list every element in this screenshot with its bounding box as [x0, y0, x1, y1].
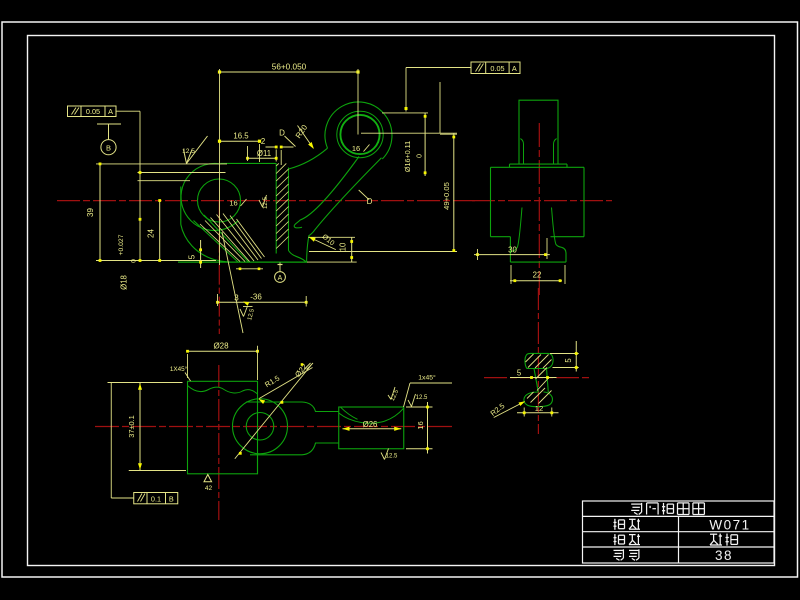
extension line y262.1 foot bottom	[307, 261, 357, 263]
radius R10 leader and text	[309, 237, 336, 250]
extension line y180.7	[138, 180, 191, 182]
dimension 5 web line	[510, 377, 557, 379]
front view: left boss bore circle Ø18	[198, 179, 241, 222]
svg-text:0.05: 0.05	[86, 107, 100, 116]
bottom view: rect corner to circle connector	[257, 456, 259, 474]
svg-text:0: 0	[131, 259, 138, 263]
svg-text:12.5: 12.5	[262, 196, 269, 209]
bottom view: small end saddle curve	[339, 408, 404, 423]
centerline front view vertical	[218, 201, 220, 334]
front view: right boss bore circle Ø16 bold	[340, 115, 379, 154]
roughness near small end top rotated	[388, 395, 391, 400]
dimension 22 extension lines	[510, 265, 512, 284]
side view: body bottom left segment	[491, 236, 511, 238]
leader to bottom frame	[110, 383, 112, 499]
extension line for 16.5	[259, 144, 261, 162]
chamfer leader right	[404, 383, 411, 407]
detail section: top lobe outline	[525, 353, 553, 368]
dimension 5 right line	[575, 341, 577, 372]
roughness mark near lug	[301, 363, 304, 366]
svg-text:Ø26: Ø26	[363, 420, 378, 429]
side view: stem inner guide lines	[520, 139, 523, 165]
svg-text:39: 39	[86, 208, 95, 217]
svg-text:0: 0	[415, 154, 424, 158]
datum flag 42 below rect	[204, 475, 212, 482]
svg-text:16.5: 16.5	[233, 132, 249, 141]
svg-text:38: 38	[715, 548, 733, 563]
dimension 36 line	[218, 301, 307, 303]
bottom view: boss inner circle	[246, 413, 274, 441]
extension line y237.3 foot top	[308, 236, 355, 238]
bottom view: lug bottom edge with fillet	[250, 443, 339, 455]
auxiliary horizontal y134	[440, 133, 457, 135]
datum B symbol	[97, 123, 121, 125]
front view: narrow arm upper-left edge	[301, 157, 360, 220]
detail section: web left edge	[534, 369, 538, 393]
front view: upper arm left edge curve	[289, 148, 328, 169]
side view: body top line	[491, 166, 585, 168]
title block row line 3	[583, 546, 775, 548]
dimension 2 line with outside arrows	[266, 146, 277, 148]
title block row line 2	[583, 531, 775, 533]
radius R1.5 leader	[259, 368, 312, 399]
svg-text:0.1: 0.1	[151, 494, 161, 503]
svg-text:5: 5	[564, 358, 573, 363]
svg-text:W071: W071	[709, 517, 750, 532]
radius R20 leader	[298, 126, 314, 149]
dimension 16.5 line	[220, 140, 260, 142]
extension line boss center right	[361, 132, 457, 134]
extension line left of 56 dim	[219, 69, 221, 265]
dimension 30 line	[474, 254, 550, 256]
svg-text:-36: -36	[250, 293, 262, 302]
roughness symbol below 36	[240, 309, 244, 317]
side view: notch left wall	[511, 208, 522, 253]
label 学号	[614, 549, 623, 551]
svg-text:A: A	[108, 107, 113, 116]
svg-text:49+0.05: 49+0.05	[442, 182, 451, 210]
svg-text:3: 3	[234, 294, 239, 303]
dimension 12 extension lines	[523, 408, 525, 417]
centerline detail view vertical	[537, 288, 539, 434]
value 赵焕	[710, 533, 717, 535]
chamfer leader left	[185, 373, 191, 382]
centerline bottom view vertical	[218, 365, 220, 520]
front view: right boss outer circle arc	[325, 102, 392, 159]
svg-text:D: D	[279, 129, 285, 138]
svg-text:D: D	[367, 197, 373, 206]
leader line to 36 label	[222, 232, 243, 333]
svg-text:Ø16+0.11: Ø16+0.11	[403, 141, 412, 172]
side view: body right edge	[583, 167, 585, 236]
bottom view: small end corner arc	[341, 407, 358, 419]
extension lines Ø28	[187, 354, 189, 378]
dimension 49+0.05 line	[453, 133, 455, 252]
roughness below small end	[381, 453, 385, 460]
side view: tail left edge	[509, 237, 511, 262]
svg-text:37±0.1: 37±0.1	[127, 415, 136, 438]
extension line bore top right boss	[382, 112, 428, 114]
extension line y251.3 foot	[309, 251, 457, 253]
detail section: hatching	[526, 354, 534, 362]
centerline side view horizontal	[472, 200, 612, 202]
svg-text:0.05: 0.05	[490, 64, 504, 73]
side view: flange sides	[509, 164, 511, 167]
centerline front view horizontal	[57, 200, 475, 202]
extension line bottom y260.5	[96, 260, 216, 262]
bottom view: break wavy line	[188, 386, 258, 395]
dimension 56+0.050 line	[220, 71, 359, 73]
svg-text:B: B	[106, 143, 111, 152]
parallelism frame bottom //0.1 B	[134, 493, 178, 504]
leader from top frame	[406, 67, 471, 69]
side view: notch right wall	[552, 208, 562, 248]
dimension 5 line	[200, 240, 202, 268]
bottom view: boss outer circle	[233, 399, 288, 454]
front view: tail arm edge 1	[194, 221, 239, 263]
parallelism frame left //0.05 A	[68, 106, 117, 117]
front view: bottom edge line	[178, 261, 307, 263]
side view: body bottom right segment	[551, 236, 585, 238]
side view: tail right edge	[562, 247, 567, 262]
dimension Ø11 line	[248, 157, 277, 159]
label 姓名	[614, 534, 616, 545]
roughness symbol in web 12.5	[259, 200, 263, 207]
dimension 10 line	[351, 237, 353, 262]
front view: tail arm edge 2	[204, 215, 249, 262]
dimension 39 line	[99, 164, 101, 261]
svg-text:10: 10	[339, 242, 348, 251]
dimension 37±0.1 line	[139, 383, 141, 471]
svg-text:1x45°: 1x45°	[418, 374, 436, 382]
dimension 5 right extension lines	[550, 353, 579, 355]
dimension 37±0.1 extension top	[108, 382, 183, 384]
svg-text:12.5: 12.5	[182, 148, 195, 155]
svg-text:Ø18: Ø18	[120, 275, 129, 290]
title block row line 1	[583, 515, 775, 517]
dimension 24 line	[159, 201, 161, 261]
parallelism frame top //0.05 A	[471, 62, 520, 74]
dimension 22 line	[510, 280, 562, 282]
dimension 16 extension lines	[406, 406, 433, 408]
centerline bottom view horizontal	[95, 426, 452, 428]
svg-text:2: 2	[261, 137, 265, 146]
svg-text:A: A	[512, 64, 517, 73]
dimension 30 extension lines	[477, 249, 479, 260]
svg-text:12.5: 12.5	[386, 454, 398, 460]
extension line for Ø11	[247, 146, 249, 161]
side view: body left edge	[490, 167, 492, 236]
title block column divider	[678, 516, 680, 563]
extension line right of 56 dim	[357, 69, 359, 135]
diagonal dimension Ø22 line	[235, 365, 311, 459]
front view: narrow arm end cap arc	[294, 220, 302, 228]
detail section: web right edge	[547, 369, 549, 393]
front view: web section right edge	[288, 168, 290, 251]
side view: tail bottom edge	[510, 261, 566, 263]
front view: foot fillet and right edge	[307, 232, 313, 262]
svg-text:16: 16	[416, 421, 425, 429]
bottom view: lug top edge with fillet	[246, 402, 339, 412]
svg-text:24: 24	[147, 229, 156, 238]
bottom view: big end rectangle	[188, 381, 258, 474]
title block outline	[583, 501, 775, 563]
small dim line below bottom edge	[236, 268, 263, 270]
svg-text:5: 5	[188, 254, 197, 259]
centerline side view vertical	[538, 123, 540, 296]
front view: web edge to bottom curve	[289, 251, 307, 263]
leader from left frame	[116, 110, 140, 112]
front view: right boss bore outer circle	[337, 111, 383, 157]
svg-text:16: 16	[352, 144, 360, 153]
svg-text:1X45°: 1X45°	[170, 365, 188, 373]
dimension Ø26 line with arrows	[343, 428, 402, 430]
centerline detail view horizontal	[484, 377, 592, 379]
svg-text:B: B	[169, 494, 174, 503]
front view: web section left edge	[275, 163, 277, 253]
svg-text:Ø28: Ø28	[213, 342, 229, 351]
extension line top tangent y164	[96, 163, 227, 165]
dimension Ø28 line	[188, 350, 258, 352]
front view: left boss outer profile arc	[181, 163, 238, 230]
svg-text:Ø11: Ø11	[257, 149, 271, 158]
dimension Ø16 line	[424, 113, 426, 176]
svg-text:12.5: 12.5	[416, 395, 428, 401]
front view: left boss flat left edge	[180, 187, 182, 225]
front view: top edge line	[220, 162, 276, 164]
svg-text:+0.027: +0.027	[118, 234, 125, 255]
detail section: bottom lobe outline	[524, 392, 553, 407]
svg-text:22: 22	[533, 271, 542, 280]
auxiliary vertical line x440	[439, 82, 441, 133]
extension lines for 2 dim	[275, 150, 277, 162]
roughness near small end right	[408, 400, 412, 407]
label 班级	[614, 519, 616, 530]
extension line y172.5	[138, 172, 226, 174]
front view: tail hatching fan	[200, 224, 240, 262]
svg-text:12: 12	[535, 404, 543, 413]
front view: narrow arm lower-right edge	[313, 158, 382, 233]
bottom view: small end rectangle	[339, 407, 404, 449]
svg-text:16: 16	[229, 199, 237, 208]
front view: left lower transition curve	[181, 225, 230, 263]
datum A flag on bottom edge	[279, 263, 281, 272]
roughness symbol top-left 12.5	[184, 150, 187, 164]
dimension 16 line	[427, 402, 429, 454]
dimension 12 line	[517, 412, 559, 414]
svg-text:42: 42	[205, 485, 213, 492]
svg-text:5: 5	[517, 369, 522, 378]
dimension 37±0.1 extension bottom	[129, 470, 186, 472]
svg-text:30: 30	[508, 246, 517, 255]
side view: flange top line	[510, 163, 568, 165]
front view: web section hatching	[276, 163, 279, 166]
radius R2.5 leader	[494, 402, 525, 418]
section label D right	[359, 190, 370, 200]
svg-text:A: A	[278, 275, 283, 282]
svg-text:56+0.050: 56+0.050	[272, 62, 307, 71]
side view: stem outline	[519, 100, 558, 164]
title text 气门摇臂图	[631, 503, 641, 505]
extension lines for 36	[217, 294, 219, 306]
